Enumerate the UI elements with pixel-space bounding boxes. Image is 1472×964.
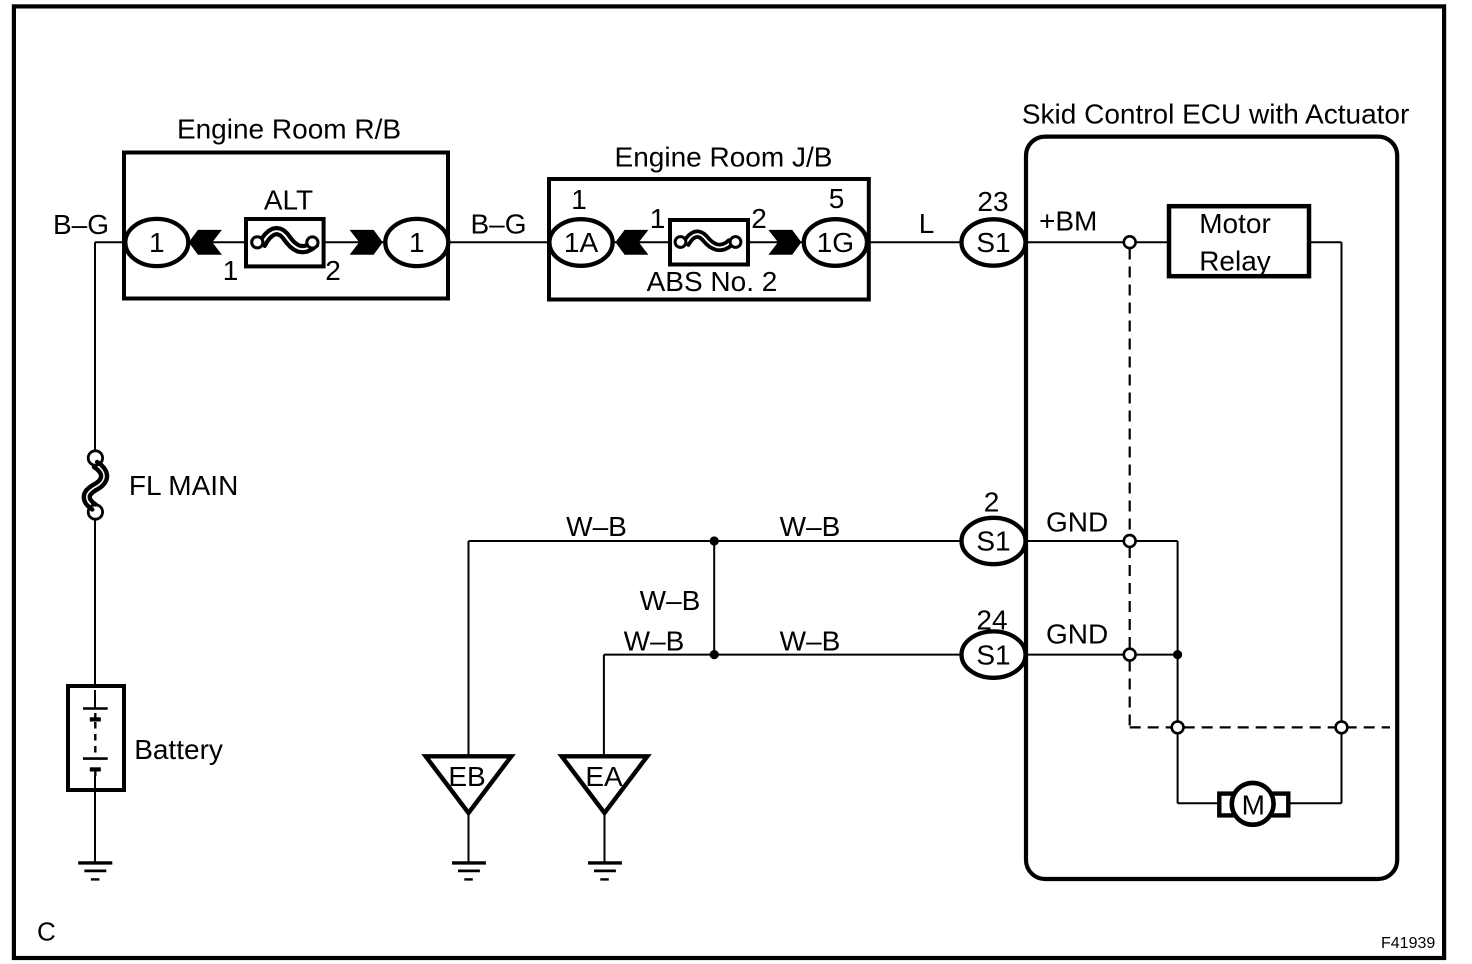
svg-text:GND: GND bbox=[1046, 507, 1108, 538]
svg-text:B–G: B–G bbox=[53, 209, 109, 240]
svg-text:1A: 1A bbox=[564, 227, 599, 258]
svg-text:F41939: F41939 bbox=[1381, 935, 1435, 952]
svg-text:+BM: +BM bbox=[1039, 206, 1097, 237]
svg-text:Engine Room J/B: Engine Room J/B bbox=[615, 142, 833, 173]
svg-text:24: 24 bbox=[976, 605, 1007, 636]
svg-text:2: 2 bbox=[751, 203, 767, 234]
svg-text:L: L bbox=[919, 208, 935, 239]
svg-text:S1: S1 bbox=[976, 526, 1010, 557]
svg-text:1: 1 bbox=[149, 227, 165, 258]
svg-text:Skid Control ECU with Actuator: Skid Control ECU with Actuator bbox=[1022, 99, 1410, 130]
svg-text:1: 1 bbox=[571, 184, 587, 215]
svg-text:C: C bbox=[37, 916, 56, 946]
svg-text:M: M bbox=[1242, 789, 1265, 820]
svg-text:1: 1 bbox=[650, 203, 666, 234]
svg-text:EA: EA bbox=[585, 761, 623, 792]
svg-text:GND: GND bbox=[1046, 619, 1108, 650]
svg-text:23: 23 bbox=[977, 186, 1008, 217]
svg-text:FL MAIN: FL MAIN bbox=[129, 470, 238, 501]
svg-text:2: 2 bbox=[984, 487, 1000, 518]
svg-text:W–B: W–B bbox=[780, 511, 841, 542]
svg-text:Motor: Motor bbox=[1199, 208, 1271, 239]
svg-text:1G: 1G bbox=[817, 227, 854, 258]
svg-text:EB: EB bbox=[448, 761, 485, 792]
svg-text:W–B: W–B bbox=[566, 511, 627, 542]
svg-text:S1: S1 bbox=[976, 639, 1010, 670]
svg-text:S1: S1 bbox=[976, 227, 1010, 258]
svg-text:B–G: B–G bbox=[470, 209, 526, 240]
svg-text:W–B: W–B bbox=[624, 626, 685, 657]
svg-text:W–B: W–B bbox=[640, 585, 701, 616]
svg-text:5: 5 bbox=[829, 183, 845, 214]
svg-text:Battery: Battery bbox=[134, 734, 223, 765]
svg-text:2: 2 bbox=[325, 255, 341, 286]
svg-text:W–B: W–B bbox=[780, 626, 841, 657]
svg-text:ABS No. 2: ABS No. 2 bbox=[647, 266, 778, 297]
svg-text:1: 1 bbox=[409, 227, 425, 258]
svg-text:Relay: Relay bbox=[1199, 246, 1271, 277]
svg-text:1: 1 bbox=[223, 255, 239, 286]
svg-text:Engine Room R/B: Engine Room R/B bbox=[177, 114, 401, 145]
svg-text:ALT: ALT bbox=[264, 185, 313, 216]
